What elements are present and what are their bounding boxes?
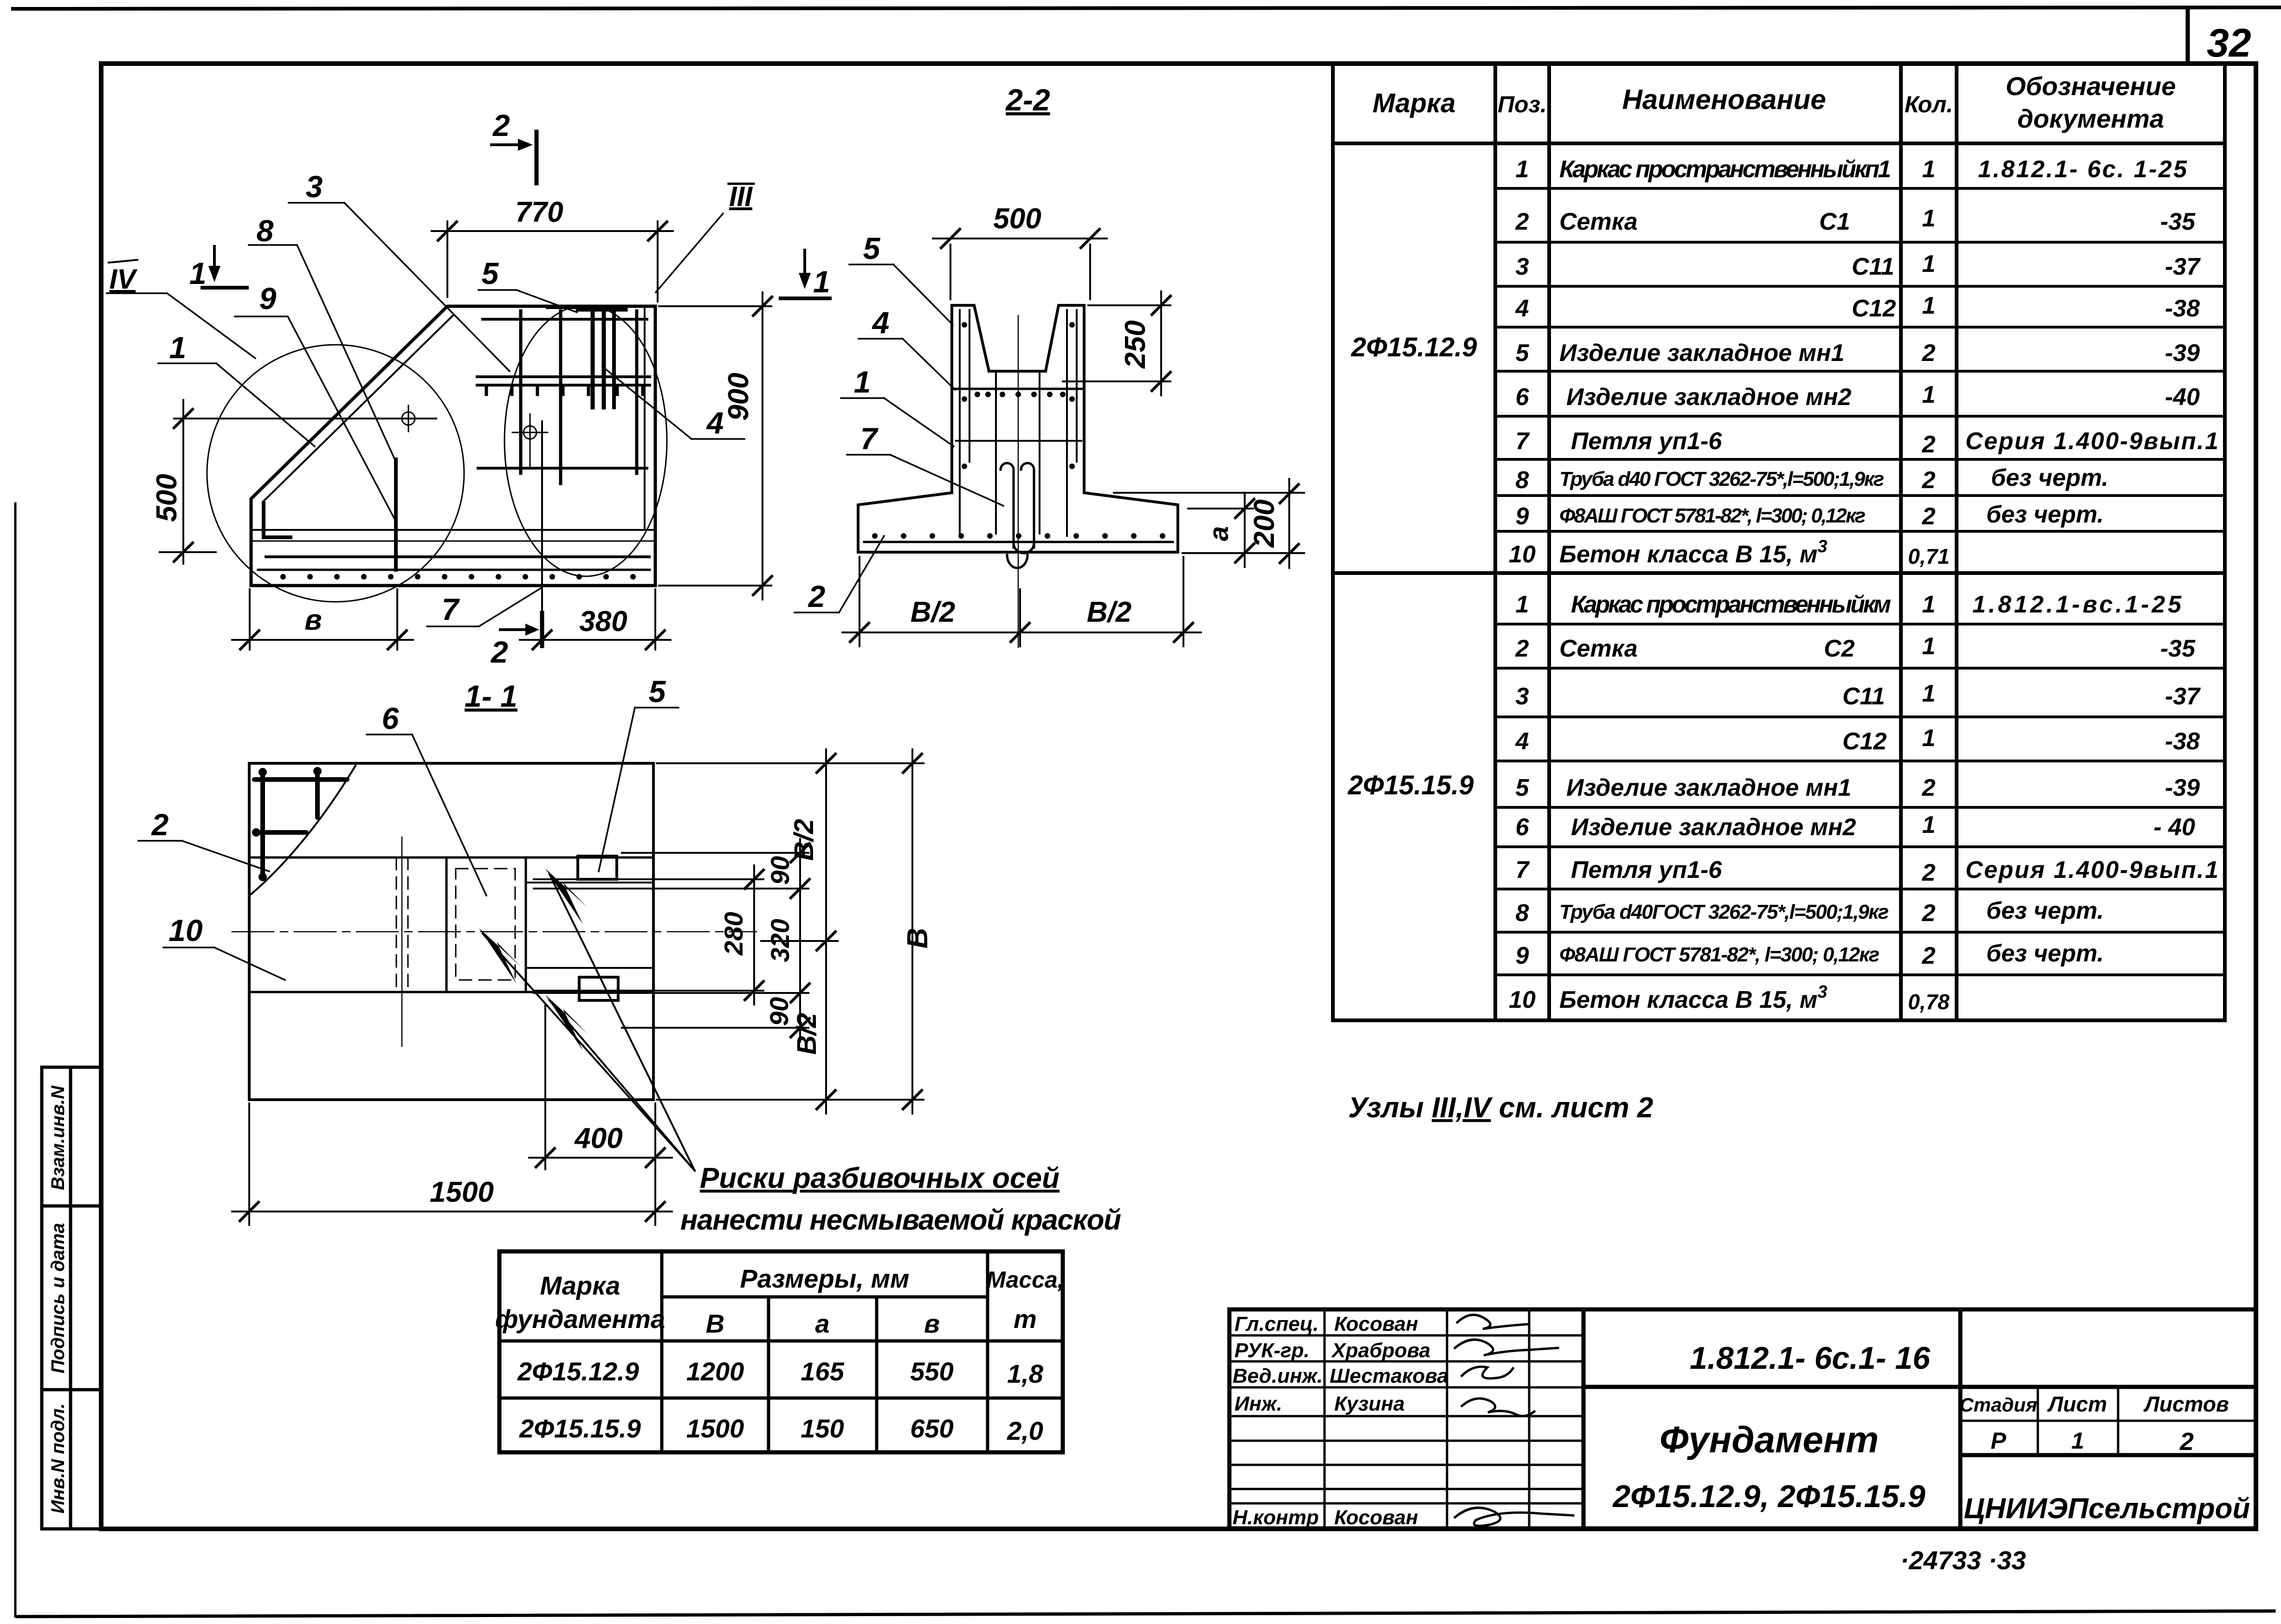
dimension 770 <box>432 221 673 302</box>
truba position 8 vertical bar <box>394 459 398 570</box>
svg-text:Сетка: Сетка <box>1559 635 1638 662</box>
svg-text:9: 9 <box>1516 942 1529 969</box>
section mark 1 left <box>202 246 247 288</box>
svg-text:2: 2 <box>490 635 508 669</box>
svg-text:1: 1 <box>2071 1428 2084 1454</box>
svg-text:5: 5 <box>863 231 881 265</box>
bottom mesh dots <box>280 574 636 580</box>
svg-text:Инв.N подл.: Инв.N подл. <box>48 1403 68 1514</box>
svg-text:1: 1 <box>1922 156 1936 183</box>
dimension 200 <box>1114 479 1304 568</box>
svg-text:-37: -37 <box>2165 683 2201 710</box>
wall rebar verticals <box>960 310 1077 536</box>
svg-text:2Ф15.12.9: 2Ф15.12.9 <box>517 1357 639 1386</box>
specification table grid <box>1333 64 2225 1020</box>
socket body outline <box>858 305 1178 552</box>
svg-text:Обозначение: Обозначение <box>2006 71 2176 101</box>
section mark 2 top <box>491 132 536 183</box>
svg-text:10: 10 <box>1509 541 1536 568</box>
svg-text:-37: -37 <box>2165 253 2201 280</box>
svg-text:Ф8АШ ГОСТ 5781-82*, l=300; 0,1: Ф8АШ ГОСТ 5781-82*, l=300; 0,12кг <box>1559 504 1866 527</box>
svg-text:документа: документа <box>2017 104 2164 133</box>
thin vertical line through plan at x=866 <box>401 837 403 1046</box>
svg-text:С12: С12 <box>1852 295 1896 322</box>
socket bottom wall inner line right part <box>526 967 653 969</box>
svg-text:1: 1 <box>813 264 830 299</box>
rebar cage hanging bars under plate <box>591 310 595 407</box>
svg-text:-39: -39 <box>2165 340 2200 367</box>
section 2 cut line through body <box>541 421 543 647</box>
svg-text:650: 650 <box>910 1414 953 1443</box>
svg-text:-38: -38 <box>2165 728 2200 755</box>
svg-text:без черт.: без черт. <box>1991 464 2108 491</box>
svg-text:Стадия: Стадия <box>1959 1394 2037 1416</box>
svg-text:500: 500 <box>151 474 183 522</box>
svg-text:Кол.: Кол. <box>1905 91 1953 117</box>
dimension 400 <box>529 1005 672 1225</box>
svg-text:2: 2 <box>1922 340 1936 367</box>
title block personnel texts <box>1233 1313 1448 1529</box>
svg-text:1: 1 <box>1922 251 1936 277</box>
uzel IV circle <box>207 345 464 602</box>
svg-text:·24733 ·33: ·24733 ·33 <box>1900 1546 2026 1575</box>
svg-text:Шестакова: Шестакова <box>1330 1365 1448 1387</box>
svg-text:-35: -35 <box>2160 635 2196 662</box>
svg-text:1,8: 1,8 <box>1007 1359 1044 1388</box>
svg-text:фундамента: фундамента <box>495 1304 665 1334</box>
svg-text:6: 6 <box>1516 384 1530 411</box>
paper top edge line <box>13 7 2281 9</box>
svg-text:2: 2 <box>2179 1428 2194 1456</box>
svg-text:4: 4 <box>872 305 890 340</box>
svg-text:4: 4 <box>706 406 724 440</box>
svg-text:380: 380 <box>579 606 627 638</box>
svg-text:В: В <box>902 928 934 949</box>
svg-text:без черт.: без черт. <box>1986 897 2104 924</box>
svg-text:2: 2 <box>1922 774 1936 801</box>
loop petlya UP1-6 <box>1001 463 1034 553</box>
column band top edge <box>249 857 653 859</box>
svg-text:Масса,: Масса, <box>986 1267 1064 1293</box>
corner L bar bottom left <box>264 503 291 537</box>
svg-text:- 40: - 40 <box>2153 814 2195 841</box>
hidden dashed verticals <box>396 857 397 992</box>
dimension 90-320-90 <box>534 839 809 1042</box>
svg-text:В/2: В/2 <box>1087 596 1131 628</box>
svg-text:1: 1 <box>1922 725 1936 752</box>
crosshair circle left <box>402 406 415 432</box>
mass table grid <box>499 1251 1063 1452</box>
center axis line <box>1018 316 1019 647</box>
svg-text:Узлы III,IV см. лист 2: Узлы III,IV см. лист 2 <box>1348 1092 1653 1124</box>
torn corner rebar grid horizontals <box>254 780 347 832</box>
svg-text:В: В <box>706 1309 724 1338</box>
svg-text:Н.контр: Н.контр <box>1233 1506 1319 1529</box>
slab top line <box>251 529 655 531</box>
svg-text:Изделие закладное мн2: Изделие закладное мн2 <box>1566 384 1851 411</box>
svg-text:IV: IV <box>110 264 138 295</box>
socket square <box>446 857 448 992</box>
svg-text:Петля уп1-6: Петля уп1-6 <box>1571 428 1722 455</box>
svg-text:Наименование: Наименование <box>1622 84 1826 115</box>
svg-text:1: 1 <box>1516 591 1529 618</box>
svg-text:2: 2 <box>492 108 510 142</box>
svg-text:8: 8 <box>1516 467 1529 494</box>
svg-text:2: 2 <box>1922 503 1936 530</box>
svg-text:Ф8АШ ГОСТ 5781-82*, l=300; 0,1: Ф8АШ ГОСТ 5781-82*, l=300; 0,12кг <box>1559 943 1880 966</box>
svg-text:нанести несмываемой краской: нанести несмываемой краской <box>680 1204 1121 1236</box>
svg-text:150: 150 <box>801 1414 844 1443</box>
svg-text:6: 6 <box>1516 814 1530 841</box>
svg-text:1: 1 <box>854 365 871 399</box>
svg-text:т: т <box>1014 1304 1037 1334</box>
axis risk arrows with note leaders <box>483 874 695 1171</box>
inner right wall line <box>644 306 646 530</box>
svg-text:0,78: 0,78 <box>1908 990 1950 1014</box>
svg-text:2,0: 2,0 <box>1007 1416 1043 1445</box>
dimension B/2 B/2 (2-2) <box>842 557 1201 646</box>
svg-text:2Ф15.15.9: 2Ф15.15.9 <box>1347 770 1473 800</box>
svg-text:8: 8 <box>1516 900 1529 927</box>
svg-text:200: 200 <box>1248 499 1280 548</box>
svg-text:Размеры, мм: Размеры, мм <box>740 1264 910 1293</box>
svg-text:С2: С2 <box>1824 635 1855 662</box>
svg-text:770: 770 <box>515 196 563 228</box>
svg-text:Марка: Марка <box>1372 88 1455 118</box>
svg-text:4: 4 <box>1515 728 1529 755</box>
svg-text:С1: С1 <box>1819 208 1850 235</box>
crosshair circle right <box>512 414 548 466</box>
svg-text:2: 2 <box>1922 431 1936 458</box>
svg-text:Риски разбивочных осей: Риски разбивочных осей <box>700 1162 1060 1194</box>
svg-text:Взам.инв.N: Взам.инв.N <box>48 1085 68 1190</box>
svg-text:Сетка: Сетка <box>1559 208 1638 235</box>
svg-text:5: 5 <box>649 674 666 709</box>
svg-text:1: 1 <box>1922 633 1936 660</box>
svg-text:2Ф15.12.9: 2Ф15.12.9 <box>1351 332 1477 362</box>
hidden dashed socket rect <box>456 869 515 980</box>
svg-text:2: 2 <box>808 579 826 613</box>
svg-text:1: 1 <box>1922 381 1936 408</box>
svg-text:III: III <box>729 181 753 212</box>
socket top wall inner line right part <box>526 882 653 883</box>
svg-text:2Ф15.12.9, 2Ф15.15.9: 2Ф15.12.9, 2Ф15.15.9 <box>1612 1479 1926 1514</box>
bottom mesh line with dots <box>258 569 650 571</box>
svg-text:Петля уп1-6: Петля уп1-6 <box>1571 857 1722 883</box>
svg-text:Труба d40 ГОСТ 3262-75*,l=500;: Труба d40 ГОСТ 3262-75*,l=500;1,9кг <box>1559 468 1884 490</box>
mass table texts <box>495 1264 1064 1445</box>
left attribute strip <box>42 1067 101 1529</box>
paper bottom edge line <box>18 1611 2274 1617</box>
mesh second line <box>956 440 1081 442</box>
svg-text:10: 10 <box>1509 986 1536 1013</box>
dimension 1500 <box>232 1103 672 1225</box>
paper left edge line <box>14 503 17 1617</box>
dimension 500 (left) <box>160 400 436 564</box>
svg-text:Р: Р <box>1990 1428 2006 1454</box>
svg-text:-35: -35 <box>2160 208 2196 235</box>
svg-text:С11: С11 <box>1842 683 1885 710</box>
svg-text:В/2: В/2 <box>789 819 819 861</box>
svg-text:5: 5 <box>1516 774 1530 801</box>
MN1 plate at top <box>579 306 625 312</box>
svg-text:1- 1: 1- 1 <box>465 679 517 713</box>
svg-text:С12: С12 <box>1842 728 1887 755</box>
svg-text:2-2: 2-2 <box>1005 83 1050 117</box>
svg-text:Марка: Марка <box>540 1271 620 1300</box>
svg-text:2: 2 <box>1922 900 1936 927</box>
svg-text:в: в <box>304 604 322 636</box>
svg-text:7: 7 <box>1516 857 1530 883</box>
svg-text:В/2: В/2 <box>911 596 955 628</box>
svg-text:6: 6 <box>382 701 400 735</box>
cavity bottom line <box>989 370 1046 373</box>
svg-text:1: 1 <box>169 330 187 365</box>
svg-text:Косован: Косован <box>1334 1506 1418 1529</box>
MN1 plate lower <box>579 977 618 1000</box>
svg-text:1: 1 <box>1922 591 1936 618</box>
svg-text:500: 500 <box>993 203 1041 235</box>
svg-text:5: 5 <box>1516 340 1530 367</box>
svg-text:С11: С11 <box>1852 253 1894 280</box>
dimension B/2 upper right <box>657 749 924 1114</box>
C11 mesh tick dots <box>486 387 643 394</box>
svg-text:9: 9 <box>1516 503 1529 530</box>
svg-text:3: 3 <box>306 169 323 204</box>
svg-text:1: 1 <box>1922 812 1936 838</box>
title block grid <box>1229 1309 2256 1528</box>
svg-text:Каркас пространственныйкп1: Каркас пространственныйкп1 <box>1559 156 1891 183</box>
svg-text:900: 900 <box>723 373 755 420</box>
svg-text:Листов: Листов <box>2143 1392 2229 1416</box>
grid bar end dots <box>252 767 322 881</box>
svg-text:2: 2 <box>151 807 169 842</box>
svg-text:Инж.: Инж. <box>1234 1392 1282 1415</box>
svg-text:Бетон класса В 15, м3: Бетон класса В 15, м3 <box>1559 982 1827 1013</box>
svg-text:1500: 1500 <box>430 1176 494 1208</box>
rebar cage horizontal bars <box>477 319 650 468</box>
uzel III ellipse <box>504 305 667 576</box>
svg-text:Косован: Косован <box>1334 1313 1418 1335</box>
svg-text:Гл.спец.: Гл.спец. <box>1234 1313 1318 1335</box>
svg-text:9: 9 <box>259 281 277 316</box>
svg-text:Поз.: Поз. <box>1498 91 1547 117</box>
svg-text:Труба d40ГОСТ 3262-75*,l=500;1: Труба d40ГОСТ 3262-75*,l=500;1,9кг <box>1559 901 1889 923</box>
dimension 900 <box>659 292 772 599</box>
svg-text:280: 280 <box>719 912 748 955</box>
svg-text:7: 7 <box>860 421 879 456</box>
svg-text:2: 2 <box>1922 467 1936 494</box>
svg-text:3: 3 <box>1516 253 1529 280</box>
dimension 250 <box>1063 291 1170 395</box>
svg-text:а: а <box>815 1309 829 1338</box>
svg-text:1: 1 <box>1516 156 1529 183</box>
svg-text:10: 10 <box>168 913 203 947</box>
svg-text:7: 7 <box>1516 428 1530 455</box>
svg-text:32: 32 <box>2207 21 2251 65</box>
svg-text:ЦНИИЭПсельстрой: ЦНИИЭПсельстрой <box>1964 1493 2250 1525</box>
wall inner verticals <box>950 305 953 493</box>
torn corner rebar grid verticals <box>263 772 317 878</box>
svg-text:Изделие закладное мн2: Изделие закладное мн2 <box>1571 814 1856 841</box>
svg-text:Каркас пространственныйкм: Каркас пространственныйкм <box>1571 591 1891 618</box>
svg-text:а: а <box>1204 526 1234 541</box>
svg-text:Фундамент: Фундамент <box>1660 1419 1879 1460</box>
svg-text:0,71: 0,71 <box>1908 544 1950 568</box>
section 2-2 wall dots <box>872 322 1165 539</box>
dimension a <box>1183 495 1304 567</box>
svg-text:без черт.: без черт. <box>1986 501 2104 528</box>
dimension B right <box>903 749 922 1114</box>
svg-text:РУК-гр.: РУК-гр. <box>1234 1339 1310 1362</box>
svg-text:2: 2 <box>1515 635 1529 662</box>
svg-text:-38: -38 <box>2165 295 2200 322</box>
bottom mesh line <box>864 541 1173 543</box>
column band bottom edge <box>249 991 653 993</box>
mesh C12 line <box>952 388 1084 390</box>
svg-text:2: 2 <box>1922 859 1936 886</box>
svg-text:1500: 1500 <box>686 1414 744 1443</box>
svg-text:1: 1 <box>1922 205 1936 232</box>
svg-text:Бетон класса В 15, м3: Бетон класса В 15, м3 <box>1559 537 1827 568</box>
section mark 1 right <box>781 250 830 298</box>
svg-text:1.812.1- 6с. 1-25: 1.812.1- 6с. 1-25 <box>1978 156 2187 183</box>
svg-text:Вед.инж.: Вед.инж. <box>1233 1365 1323 1387</box>
svg-text:7: 7 <box>442 592 460 626</box>
svg-text:-39: -39 <box>2165 774 2200 801</box>
svg-text:90: 90 <box>765 856 795 885</box>
sheet number box 32 <box>2188 9 2256 64</box>
foundation body outline <box>251 306 655 586</box>
svg-text:2: 2 <box>1922 942 1936 969</box>
svg-text:165: 165 <box>801 1357 844 1386</box>
svg-text:Кузина: Кузина <box>1334 1392 1405 1415</box>
svg-text:90: 90 <box>764 997 794 1026</box>
dimension 380 <box>520 589 671 650</box>
svg-text:250: 250 <box>1119 320 1151 368</box>
svg-text:Изделие закладное мн1: Изделие закладное мн1 <box>1566 774 1851 801</box>
svg-text:400: 400 <box>574 1122 622 1154</box>
svg-text:Храброва: Храброва <box>1331 1339 1430 1362</box>
bottom mesh C1 bar <box>266 555 649 558</box>
dimension 500 (2-2) <box>933 229 1107 299</box>
center axis line <box>232 931 756 933</box>
svg-text:Изделие закладное мн1: Изделие закладное мн1 <box>1559 340 1844 367</box>
inner slope line <box>263 315 454 502</box>
svg-text:в: в <box>924 1309 940 1338</box>
svg-text:2Ф15.15.9: 2Ф15.15.9 <box>519 1414 641 1443</box>
svg-text:2: 2 <box>1515 208 1529 235</box>
svg-text:без черт.: без черт. <box>1986 940 2104 967</box>
svg-text:4: 4 <box>1515 295 1529 322</box>
svg-text:Лист: Лист <box>2047 1392 2107 1416</box>
dimension в (bottom left) <box>232 589 413 650</box>
svg-text:1: 1 <box>189 256 207 290</box>
MN1 plate upper <box>578 856 617 879</box>
svg-text:-40: -40 <box>2165 384 2200 411</box>
plan outer rectangle <box>249 763 653 1100</box>
svg-text:550: 550 <box>910 1357 953 1386</box>
svg-text:5: 5 <box>482 256 499 290</box>
svg-text:320: 320 <box>765 919 795 962</box>
slab inner line <box>253 541 653 542</box>
svg-text:1200: 1200 <box>686 1357 744 1386</box>
personnel signatures squiggles <box>1455 1315 1573 1526</box>
svg-text:Подпись и дата: Подпись и дата <box>48 1223 68 1373</box>
rebar cage verticals <box>521 311 637 483</box>
svg-text:8: 8 <box>257 213 274 248</box>
svg-text:1.812.1- 6с.1- 16: 1.812.1- 6с.1- 16 <box>1690 1340 1931 1376</box>
svg-text:3: 3 <box>1516 683 1529 710</box>
group1 row 1 <box>1509 156 2218 1014</box>
svg-text:1: 1 <box>1922 680 1936 707</box>
svg-text:1: 1 <box>1922 292 1936 319</box>
dimension 280 <box>534 865 763 1005</box>
section mark 2 bottom <box>500 613 542 646</box>
tear break curve <box>251 766 355 895</box>
